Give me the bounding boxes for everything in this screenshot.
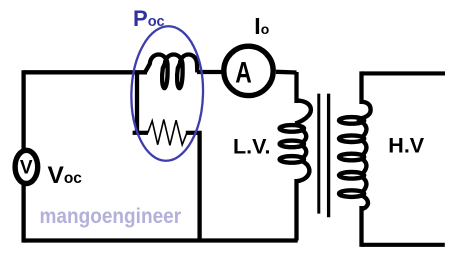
blue ellipse highlight [130,25,205,161]
wire: ammeter to LV corner [276,70,297,75]
LV winding [280,101,311,182]
wire: left vertical lower (voltmeter to bottom corner) [21,185,25,243]
wire: LV top drop [294,72,298,103]
wattmeter pressure coil: left stub [133,131,148,135]
svg-text:L.V.: L.V. [233,135,270,159]
svg-text:A: A [235,56,252,89]
wire: coil to ammeter [197,70,222,74]
ammeter A [224,46,273,95]
wire: top horizontal from left corner to wattmeter [24,70,147,74]
svg-text:V: V [20,158,33,179]
wire: LV bottom drop [294,179,298,241]
wattmeter right drop wire [197,131,201,241]
wire: HV top drop [359,71,363,104]
wire: left vertical upper (corner to voltmeter) [21,70,25,149]
wire: bottom horizontal [24,238,298,242]
wire: HV bottom horizontal [362,243,445,247]
wire: HV top horizontal [362,71,446,75]
svg-text:H.V: H.V [388,134,425,158]
svg-text:mangoengineer: mangoengineer [40,205,182,228]
core line left [317,94,320,214]
wattmeter left drop wire [135,72,139,133]
core line right [327,94,330,218]
HV winding [339,102,371,209]
resistor zigzag [148,120,187,146]
pressure coil right stub [186,131,202,135]
wire: HV bottom drop [359,206,363,247]
wattmeter current coil L [145,55,197,89]
voltmeter V [15,150,38,183]
